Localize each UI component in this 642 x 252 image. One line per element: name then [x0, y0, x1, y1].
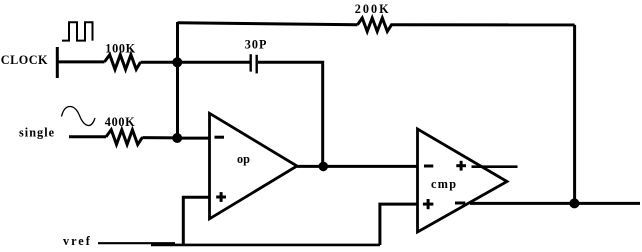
wire single to R2: [69, 135, 106, 138]
wire cmp output: [470, 202, 640, 205]
junction node A: [172, 57, 182, 67]
comparator U2 bottom minus sign: [455, 202, 465, 205]
sine waveform symbol: [62, 106, 96, 125]
clock waveform symbol: [62, 22, 93, 40]
svg-text:400K: 400K: [105, 115, 136, 129]
wire op-amp noninverting input: [183, 197, 209, 245]
wire C1 to node C: [258, 62, 323, 166]
wire top feedback right: [395, 23, 575, 26]
resistor R2 400K: [106, 130, 143, 145]
op-amp U1: [210, 113, 298, 219]
wire vref lead: [98, 242, 175, 244]
svg-text:CLOCK: CLOCK: [1, 53, 48, 67]
wire op output to cmp inverting input: [297, 165, 418, 168]
op-amp U1 minus sign: [215, 136, 225, 139]
resistor R3 200K: [358, 18, 396, 31]
input terminal tick CLOCK: [56, 47, 59, 78]
wire CLOCK to R1: [57, 60, 104, 63]
wire node A vertical: [176, 22, 179, 139]
wire node B to op-amp inverting input: [178, 137, 210, 140]
junction node D output: [569, 198, 579, 208]
comparator U2 noninverting plus sign: [423, 199, 434, 209]
capacitor C1 30P: [251, 54, 257, 73]
resistor R1 100K: [105, 55, 141, 70]
wire vref to cmp noninverting: [151, 244, 380, 247]
wire top feedback left: [178, 23, 358, 25]
wire feedback vertical: [573, 25, 576, 204]
svg-text:200K: 200K: [355, 2, 391, 16]
wire R2 to node B: [143, 136, 178, 139]
svg-text:100K: 100K: [105, 41, 136, 55]
svg-text:vref: vref: [63, 234, 92, 248]
svg-text:cmp: cmp: [431, 177, 457, 191]
svg-text:op: op: [237, 152, 250, 166]
comparator U2 top plus sign: [456, 161, 466, 171]
svg-text:single: single: [19, 126, 55, 140]
junction node C: [319, 162, 329, 172]
wire cmp noninverting vertical: [380, 204, 418, 245]
junction node B: [172, 133, 182, 143]
wire cmp top output stub: [472, 165, 518, 168]
wire R1 to node A: [141, 61, 179, 64]
comparator U2 inverting minus sign: [424, 165, 433, 168]
svg-text:30P: 30P: [245, 38, 268, 52]
comparator U2: [418, 129, 508, 232]
wire node A to C1: [178, 61, 250, 64]
op-amp U1 plus sign: [216, 192, 226, 202]
